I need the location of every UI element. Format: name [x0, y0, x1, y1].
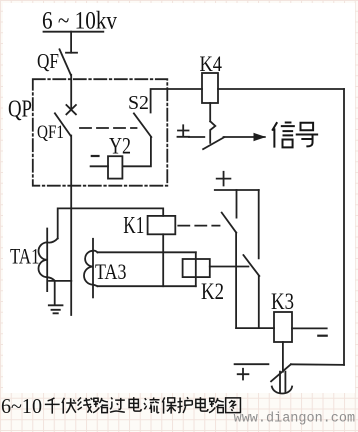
wire TA3 bottom line: [98, 285, 196, 287]
wire main feeder down: [70, 136, 72, 316]
wire drop to contact1: [236, 190, 238, 218]
wire plus rail: [215, 189, 259, 191]
wire K1 bottom: [162, 234, 164, 286]
电: [196, 397, 208, 411]
breaker QF fixed terminal T-bar: [66, 52, 77, 54]
contact S2 blade: [134, 113, 151, 137]
label 信号 signal (drawn glyphs): [272, 122, 318, 147]
coil K2 rectangle: [183, 259, 210, 277]
svg-text:K1: K1: [123, 213, 144, 239]
transformer TA1 winding: [38, 238, 57, 281]
流: [144, 397, 160, 413]
label plus top: [217, 172, 231, 186]
wire K2 right: [210, 266, 249, 268]
wire S2 to Y2: [122, 137, 150, 166]
svg-text:K3: K3: [271, 289, 294, 314]
contact K4 spring zigzag: [210, 121, 215, 143]
千: [45, 398, 60, 414]
路: [209, 398, 224, 413]
breaker contact X mark: [66, 105, 76, 114]
jack cup arc: [272, 387, 292, 394]
coil K1 rectangle: [148, 216, 176, 234]
svg-text:QF1: QF1: [37, 122, 64, 143]
transformer TA3 core: [92, 239, 94, 298]
svg-text:S2: S2: [128, 92, 149, 114]
wire bottom rail to K3: [236, 327, 274, 329]
wire K3 bottom: [282, 342, 284, 372]
wire drop to contact2: [258, 190, 260, 258]
wire bottom left plus terminal: [235, 363, 269, 365]
breaker QF blade: [60, 49, 71, 75]
contact QF1 blade: [55, 113, 71, 135]
contact S2 fixed vertical: [151, 89, 202, 113]
svg-text:TA1: TA1: [10, 244, 40, 269]
title 6~10千伏线路过流保护电路图 (drawn glyphs): [1, 394, 240, 418]
contact K4 blade: [203, 137, 224, 149]
label plus bottom: [238, 369, 249, 380]
护: [177, 397, 192, 413]
ground stem: [54, 281, 56, 305]
label plusminus: [178, 125, 190, 137]
svg-text:K2: K2: [201, 279, 224, 304]
wire signal arrow line: [224, 136, 265, 138]
wire fixed contact at plusminus: [189, 136, 204, 138]
arrowhead of signal arrow: [254, 133, 267, 141]
图: [226, 398, 241, 413]
wire TA3 top line: [98, 251, 196, 253]
svg-text:Y2: Y2: [109, 134, 131, 159]
coil Y2 rectangle: [108, 156, 122, 178]
wire Y2 left terminal: [91, 165, 108, 167]
watermark www.diangon.com: [234, 412, 356, 427]
switch blade bottom: [271, 364, 291, 381]
node bus 6-10kv busbar: [44, 31, 104, 33]
transformer TA3 winding: [84, 251, 98, 287]
linkage K1-contact dashed: [178, 225, 219, 227]
label minus at Y2: [92, 155, 99, 157]
transformer TA1 core: [46, 229, 48, 292]
coil K4 rectangle: [202, 73, 218, 103]
svg-text:QP: QP: [8, 97, 32, 123]
wire K4 bottom: [209, 103, 211, 121]
boundary QP dash-dot box: [33, 79, 168, 186]
电: [129, 397, 141, 411]
wire QF to X mark: [70, 75, 72, 108]
wire bottom right to border: [291, 363, 344, 366]
wire contact2 down: [258, 276, 260, 328]
coil K3 rectangle: [274, 312, 292, 342]
伏: [62, 398, 76, 414]
线: [78, 397, 93, 412]
svg-text:TA3: TA3: [95, 259, 127, 284]
svg-text:QF: QF: [37, 49, 59, 73]
svg-text:6 ~ 10kv: 6 ~ 10kv: [42, 8, 117, 35]
svg-text:6~10: 6~10: [1, 394, 42, 418]
过: [110, 397, 125, 412]
路: [93, 398, 108, 413]
wire right border: [343, 89, 345, 365]
contact 1 blade: [222, 213, 237, 233]
svg-text:www.diangon.com: www.diangon.com: [234, 412, 356, 427]
wire tap to K1: [58, 208, 164, 238]
linkage QF1-S2 dashed: [80, 127, 137, 129]
wire through K2: [195, 252, 197, 286]
wire K3 right terminal: [292, 327, 327, 329]
label minus at K3: [318, 335, 326, 337]
jack twin leads: [280, 372, 285, 393]
svg-text:K4: K4: [200, 51, 223, 76]
wire contact1 down: [235, 233, 237, 328]
保: [162, 397, 176, 413]
wire bus drop stub: [70, 32, 72, 53]
ground bars: [49, 305, 63, 313]
wire K4 right to border: [218, 88, 344, 90]
wire TA1 bottom to feeder: [49, 280, 71, 282]
contact 2 blade: [243, 255, 259, 276]
